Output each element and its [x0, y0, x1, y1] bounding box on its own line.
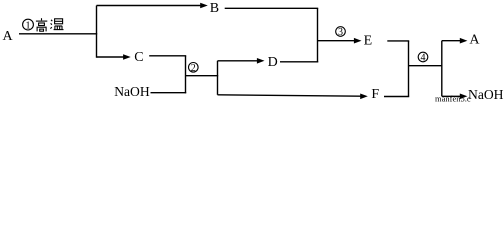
- wire after B: [225, 7, 319, 9]
- label circled 4: [418, 52, 428, 64]
- svg-text:NaOH: NaOH: [468, 87, 504, 102]
- wire arrow to C: [97, 56, 125, 58]
- svg-text:1: 1: [25, 21, 30, 32]
- wire NaOH to bracket: [151, 92, 187, 94]
- label gao (high) glyph: [36, 18, 47, 31]
- arrowhead to E: [354, 38, 362, 44]
- svg-text:A: A: [3, 29, 14, 44]
- arrowhead to D: [257, 58, 265, 64]
- label wen (temperature) glyph: [50, 19, 63, 30]
- svg-text:D: D: [268, 55, 278, 70]
- wire crossbar 4: [409, 65, 443, 67]
- svg-text:B: B: [210, 1, 219, 16]
- svg-text:3: 3: [338, 27, 343, 38]
- label circled 3: [336, 27, 346, 39]
- svg-text:C: C: [134, 50, 143, 65]
- wire vertical V5: [441, 41, 443, 97]
- arrowhead to C: [123, 54, 131, 60]
- svg-text:manfen5.c: manfen5.c: [435, 94, 471, 104]
- label circled 1: [23, 19, 34, 31]
- wire vertical V4: [408, 41, 410, 97]
- wire after F: [384, 96, 409, 98]
- wire arrow to B: [97, 5, 202, 7]
- arrowhead to F: [360, 94, 368, 100]
- svg-text:A: A: [469, 33, 480, 48]
- wire arrow to A2: [442, 40, 461, 42]
- svg-text:NaOH: NaOH: [114, 84, 150, 99]
- wire arrow to NaOH2: [442, 95, 461, 97]
- wire A to junction: [19, 33, 97, 35]
- wire after E: [387, 40, 409, 42]
- arrowhead to NaOH2: [460, 94, 468, 100]
- svg-text:4: 4: [421, 53, 426, 64]
- arrowhead to B: [200, 3, 208, 9]
- arrowhead to A2: [460, 38, 468, 44]
- label circled 2: [189, 63, 199, 74]
- wire vertical V2: [217, 61, 219, 95]
- wire arrow to E: [318, 40, 355, 42]
- wire arrow to D: [218, 60, 259, 62]
- wire arrow to F sloped: [218, 95, 362, 96]
- wire bracket vertical V2L: [185, 56, 187, 94]
- wire vertical V3 merge B and D: [317, 8, 319, 62]
- wire stub 2: [186, 75, 219, 77]
- wire C to bracket: [149, 55, 186, 57]
- wire after D: [280, 61, 318, 63]
- svg-text:F: F: [371, 87, 379, 102]
- wire vertical junction V1: [96, 6, 98, 58]
- svg-text:E: E: [364, 34, 373, 49]
- svg-text:2: 2: [191, 63, 196, 74]
